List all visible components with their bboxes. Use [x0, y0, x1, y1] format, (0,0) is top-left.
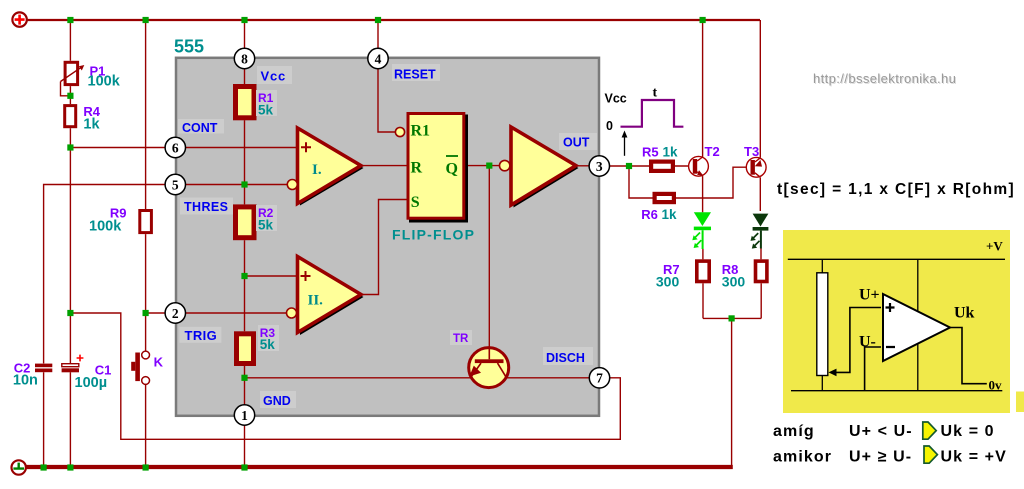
svg-text:100µ: 100µ	[75, 375, 108, 391]
svg-text:http://bsselektronika.hu: http://bsselektronika.hu	[813, 71, 956, 86]
wire TR collector side to pin7	[507, 377, 590, 379]
svg-text:Uk = 0: Uk = 0	[941, 423, 995, 440]
output waveform sketch	[605, 86, 684, 134]
comparator explanation panel background	[783, 230, 1010, 413]
resistor R4	[65, 106, 76, 127]
label R5 1k	[642, 145, 678, 160]
svg-text:1k: 1k	[663, 145, 679, 160]
junction node gnd/C1	[67, 464, 73, 470]
wire LED2 to R8	[760, 249, 762, 260]
svg-text:4: 4	[375, 51, 382, 66]
wire R7 bottom	[702, 283, 704, 318]
junction node gnd/pin1	[241, 464, 247, 470]
label R3 value	[258, 325, 279, 351]
label OUT	[559, 133, 597, 150]
capacitor C2	[35, 364, 52, 373]
resistor R7 300	[697, 261, 709, 281]
svg-text:CONT: CONT	[182, 121, 218, 135]
svg-text:T2: T2	[705, 144, 720, 159]
potentiometer P1	[61, 62, 85, 96]
junction node +V/P1	[67, 17, 73, 23]
svg-text:R6: R6	[641, 207, 658, 222]
svg-text:t[sec] = 1,1 x C[F] x R[ohm]: t[sec] = 1,1 x C[F] x R[ohm]	[777, 181, 1015, 198]
wire pin3 node to T3 base via R6	[629, 166, 751, 198]
svg-text:R: R	[411, 160, 423, 177]
wire pin2 TRIG line	[146, 312, 287, 314]
pin 2	[165, 303, 185, 323]
svg-text:1: 1	[241, 408, 248, 423]
wire TR emitter to R3 node	[245, 377, 472, 379]
svg-text:Q: Q	[446, 161, 458, 178]
svg-text:2: 2	[172, 306, 179, 321]
svg-text:S: S	[411, 194, 420, 211]
svg-text:THRES: THRES	[184, 200, 228, 214]
resistor R6 1k	[655, 194, 674, 202]
op-amp comparator II	[287, 257, 364, 336]
transistor TR discharge	[469, 347, 509, 387]
svg-text:1k: 1k	[83, 117, 100, 133]
wire supply branch P1/R4/C1 x=70	[69, 20, 71, 466]
svg-text:Vcc: Vcc	[261, 69, 287, 84]
pin 7	[589, 368, 609, 388]
wire pin5 THRES line with C2 branch	[44, 185, 288, 466]
label TRIG	[179, 327, 221, 343]
junction node timing C1	[67, 310, 73, 316]
+V supply terminal	[12, 12, 26, 26]
junction node R7/R8	[729, 315, 735, 321]
wire R7/R8 junction link	[703, 317, 761, 319]
svg-text:U+ ≥ U-: U+ ≥ U-	[849, 449, 912, 466]
wire divider chain segments	[244, 120, 246, 465]
label R6 1k	[641, 207, 677, 222]
label GND	[260, 391, 296, 408]
output buffer amplifier	[500, 127, 579, 208]
label R7 300	[656, 262, 680, 290]
svg-text:T3: T3	[744, 144, 759, 159]
svg-text:Vcc: Vcc	[605, 92, 627, 106]
wire LED1 to R7	[702, 249, 704, 259]
caption icon 1	[923, 422, 936, 439]
svg-text:5k: 5k	[260, 337, 276, 352]
panel +V rail	[788, 258, 1005, 260]
junction node +V/R9	[143, 17, 149, 23]
label DISCH	[543, 347, 593, 365]
junction node divider ref2	[241, 273, 247, 279]
wire R9/K branch x=146	[145, 20, 147, 466]
pin 3	[589, 156, 609, 176]
resistor R2 5k internal	[236, 207, 255, 238]
wire Q-bar to buffer	[465, 165, 499, 167]
svg-text:5k: 5k	[258, 103, 274, 118]
panel op-amp triangle	[883, 294, 950, 361]
label P1 100k	[88, 64, 121, 90]
label C2 10n	[13, 361, 38, 389]
svg-text:TR: TR	[453, 333, 469, 345]
panel potentiometer	[817, 259, 828, 390]
wire pin8 to divider chain	[244, 20, 246, 84]
svg-text:+V: +V	[986, 239, 1003, 254]
label R4 1k	[83, 104, 100, 133]
label Vcc	[257, 66, 292, 84]
panel Uk output wire	[950, 328, 987, 384]
junction node Q-bar/TR	[486, 163, 492, 169]
caption icon 2	[924, 446, 937, 463]
ground terminal	[12, 460, 26, 474]
wire comparator II output to S	[361, 200, 407, 295]
svg-text:DISCH: DISCH	[546, 351, 585, 365]
svg-text:R5: R5	[642, 145, 659, 160]
wire top +V rail	[27, 19, 760, 21]
panel U- to 0v wire	[865, 347, 881, 391]
svg-text:300: 300	[722, 274, 746, 290]
resistor R9	[140, 211, 152, 233]
wire Q-bar node to TR collector	[488, 166, 490, 348]
svg-text:amikor: amikor	[773, 449, 832, 466]
svg-text:TRIG: TRIG	[185, 328, 218, 343]
svg-text:U+ < U-: U+ < U-	[849, 423, 913, 440]
svg-text:100k: 100k	[89, 219, 122, 235]
pin 1	[234, 405, 254, 425]
arrow output direction	[622, 131, 628, 156]
panel yellow fragment right edge	[1016, 392, 1024, 413]
pin 6	[165, 137, 185, 157]
LED D1 green	[692, 212, 711, 249]
svg-text:K: K	[154, 355, 164, 370]
wire T3 emitter to LED2	[759, 177, 761, 211]
resistor R8 300	[756, 261, 767, 281]
label TR	[450, 330, 472, 345]
pin 4	[368, 48, 388, 68]
pin 5	[165, 174, 185, 194]
svg-text:R1: R1	[411, 123, 431, 140]
svg-text:8: 8	[241, 51, 248, 66]
label R9 100k	[89, 206, 127, 235]
wire +V rail drop to T3	[759, 20, 761, 158]
svg-text:I.: I.	[312, 162, 322, 178]
label CONT	[178, 119, 224, 135]
svg-text:U+: U+	[859, 287, 880, 304]
junction node TRIG/K	[143, 310, 149, 316]
svg-text:5k: 5k	[258, 218, 274, 233]
junction node +V/pin4	[375, 17, 381, 23]
wire +V rail drop to T2	[702, 20, 704, 157]
wire R2/R3 node to comparator II	[245, 275, 298, 277]
svg-text:3: 3	[596, 159, 603, 174]
op-amp comparator I	[287, 128, 363, 206]
svg-text:Uk: Uk	[954, 305, 975, 322]
label R8 300	[722, 262, 746, 290]
wire buffer output to pin3	[576, 165, 589, 167]
wire DISCH to timing node link	[70, 313, 620, 439]
svg-text:1k: 1k	[662, 207, 678, 222]
caption row 2 amikor	[773, 449, 1007, 466]
svg-text:t: t	[653, 86, 658, 101]
svg-text:555: 555	[174, 37, 204, 57]
junction node P1 wiper	[67, 93, 73, 99]
label C1 100u	[75, 363, 112, 392]
svg-text:0v: 0v	[989, 378, 1003, 393]
svg-text:U-: U-	[859, 334, 876, 351]
svg-text:FLIP-FLOP: FLIP-FLOP	[392, 227, 475, 243]
caption row 1 amig	[773, 423, 995, 440]
svg-text:7: 7	[596, 371, 603, 386]
wire bottom ground rail	[26, 465, 733, 469]
capacitor C1 electrolytic	[62, 355, 84, 373]
label R2 value	[256, 205, 277, 231]
label RESET	[392, 64, 440, 82]
junction node +V/pin8	[241, 17, 247, 23]
junction node +V/T2	[700, 17, 706, 23]
svg-text:II.: II.	[308, 293, 324, 309]
panel 0v rail	[791, 390, 1002, 392]
wire ground rail drop from R7/R8	[731, 318, 733, 465]
label R1 value	[256, 90, 277, 116]
junction node CONT/R4	[67, 144, 73, 150]
pin 8	[234, 48, 254, 68]
resistor R1 5k internal	[236, 87, 255, 118]
flip-flop U2	[395, 114, 468, 223]
svg-text:amíg: amíg	[773, 423, 815, 440]
svg-text:GND: GND	[263, 394, 291, 408]
wire T2 emitter to LED	[702, 176, 704, 212]
svg-text:6: 6	[172, 140, 179, 155]
junction node gnd/C2	[41, 464, 47, 470]
svg-text:OUT: OUT	[563, 136, 590, 150]
resistor R3 5k internal	[237, 334, 254, 364]
panel mid supply wire	[917, 259, 919, 390]
junction node OUT/R5/R6	[626, 163, 632, 169]
svg-text:100k: 100k	[88, 74, 121, 90]
transistor T2	[689, 156, 709, 176]
svg-text:300: 300	[656, 274, 680, 290]
LED D2 dark green	[751, 214, 769, 249]
svg-text:0: 0	[606, 119, 613, 133]
wire R8 bottom	[760, 283, 762, 318]
push button K	[131, 351, 149, 384]
svg-text:Uk = +V: Uk = +V	[941, 449, 1007, 466]
panel wiper to U+	[829, 308, 882, 377]
svg-text:10n: 10n	[13, 373, 38, 389]
op-amp U1 555 IC body	[176, 58, 599, 416]
transistor T3	[746, 157, 766, 177]
wire pin6 CONT line	[70, 147, 297, 149]
resistor R5 1k	[651, 162, 673, 171]
wire pin4 to R1 bubble	[378, 20, 395, 132]
svg-text:5: 5	[172, 177, 179, 192]
wire pin3 to T2 base via R5	[609, 165, 693, 167]
junction node gnd/K	[143, 464, 149, 470]
junction node R3/TR emitter	[241, 375, 247, 381]
svg-text:RESET: RESET	[394, 68, 436, 82]
junction node divider ref1	[241, 181, 247, 187]
label THRES	[180, 198, 233, 215]
wire comparator I output to R	[361, 165, 407, 167]
